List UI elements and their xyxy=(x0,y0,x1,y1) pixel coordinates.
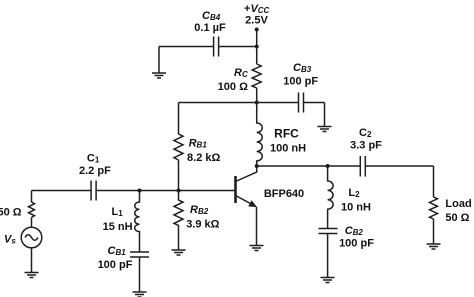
svg-text:BFP640: BFP640 xyxy=(264,188,304,200)
svg-text:100 pF: 100 pF xyxy=(98,259,133,271)
ground (CB3 right) xyxy=(318,127,332,132)
svg-text:RFC: RFC xyxy=(274,127,299,141)
node L1 junction xyxy=(138,189,142,193)
node VCC junction xyxy=(255,45,259,49)
ground (RB2) xyxy=(172,250,186,255)
svg-text:L1: L1 xyxy=(112,206,124,218)
wire CB4 left drop xyxy=(158,47,160,74)
source VS xyxy=(21,227,42,248)
inductor L2 xyxy=(328,166,334,229)
svg-text:RB1: RB1 xyxy=(189,138,208,150)
svg-text:15 nH: 15 nH xyxy=(103,221,133,233)
resistor RS 50 ohm xyxy=(29,202,35,217)
svg-text:2.5V: 2.5V xyxy=(245,15,268,27)
wire load drop xyxy=(433,166,435,197)
svg-text:Load: Load xyxy=(445,198,471,210)
node RB junction xyxy=(177,189,181,193)
wire collector rail xyxy=(257,165,434,167)
ground (CB1) xyxy=(133,292,147,297)
svg-text:RB2: RB2 xyxy=(190,204,209,216)
wire base signal rail xyxy=(32,190,236,192)
wire top bypass rail xyxy=(159,46,257,48)
node collector xyxy=(255,164,259,168)
svg-text:CB4: CB4 xyxy=(202,10,221,22)
ground (CB4 left) xyxy=(152,73,166,78)
svg-text:100 nH: 100 nH xyxy=(270,143,306,155)
wire VCC vertical xyxy=(256,30,258,65)
node VCC terminal xyxy=(255,28,259,32)
svg-text:CB3: CB3 xyxy=(293,62,312,74)
wire CB1 bottom xyxy=(139,257,141,292)
ground (CB2) xyxy=(321,278,335,283)
svg-text:L2: L2 xyxy=(348,187,360,199)
inductor L1 xyxy=(135,191,140,253)
svg-text:CB2: CB2 xyxy=(345,225,364,237)
svg-text:CB1: CB1 xyxy=(108,245,127,257)
capacitor CB1 xyxy=(130,252,149,257)
inductor RFC xyxy=(257,103,263,167)
capacitor C1 xyxy=(91,181,96,201)
ground (VS) xyxy=(25,273,39,278)
svg-text:100 pF: 100 pF xyxy=(283,76,318,88)
capacitor C2 xyxy=(360,156,365,177)
ground (emitter) xyxy=(250,246,264,251)
wire RC bottom xyxy=(256,88,258,103)
svg-text:C2: C2 xyxy=(359,127,372,139)
svg-text:50 Ω: 50 Ω xyxy=(0,207,22,219)
resistor Load xyxy=(430,197,438,219)
svg-text:3.3 pF: 3.3 pF xyxy=(350,140,382,152)
resistor RB1 xyxy=(174,134,183,160)
resistor RB2 xyxy=(174,191,183,251)
wire CB3 right drop xyxy=(324,103,326,127)
svg-text:RC: RC xyxy=(234,67,248,79)
node bias junction xyxy=(255,101,259,105)
resistor RC xyxy=(252,64,261,88)
svg-text:50 Ω: 50 Ω xyxy=(445,212,469,224)
wire load bottom xyxy=(433,219,435,244)
wire bias rail xyxy=(179,102,325,104)
node L2 junction xyxy=(326,164,330,168)
svg-text:C1: C1 xyxy=(87,153,100,165)
svg-text:10 nH: 10 nH xyxy=(341,202,371,214)
wire CB2 bottom xyxy=(327,234,329,278)
svg-text:3.9 kΩ: 3.9 kΩ xyxy=(186,219,219,231)
transistor Q1 BFP640 xyxy=(234,176,237,203)
svg-text:+VCC: +VCC xyxy=(244,3,270,15)
svg-text:0.1 µF: 0.1 µF xyxy=(194,22,226,34)
ground (load) xyxy=(427,244,441,249)
svg-text:Vs: Vs xyxy=(4,234,16,246)
capacitor CB2 xyxy=(319,229,338,234)
capacitor CB3 xyxy=(299,93,304,113)
svg-text:100 pF: 100 pF xyxy=(339,238,374,250)
wire RB1 top xyxy=(178,103,180,135)
svg-text:8.2 kΩ: 8.2 kΩ xyxy=(187,152,220,164)
wire VS bottom xyxy=(31,248,33,273)
wire source drop xyxy=(31,191,33,203)
svg-text:2.2 pF: 2.2 pF xyxy=(79,165,111,177)
capacitor CB4 xyxy=(214,37,219,57)
svg-text:100 Ω: 100 Ω xyxy=(218,81,248,93)
wire RS bottom xyxy=(31,217,33,227)
wire RB1 bottom xyxy=(178,160,180,191)
